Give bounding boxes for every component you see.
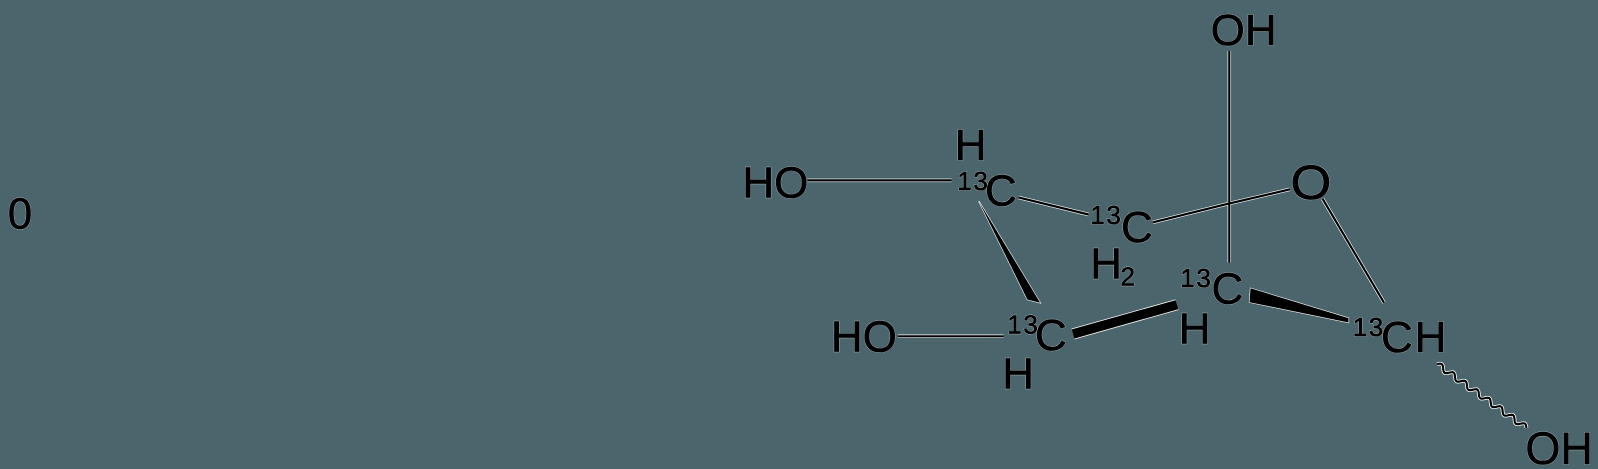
svg-text:CH: CH <box>1381 313 1448 362</box>
svg-text:H: H <box>955 121 987 170</box>
svg-text:13: 13 <box>1180 263 1212 293</box>
svg-text:C: C <box>1212 264 1244 313</box>
svg-text:HO: HO <box>742 158 808 207</box>
svg-text:OH: OH <box>1525 423 1593 469</box>
svg-text:H: H <box>1179 305 1211 354</box>
svg-text:C: C <box>1035 311 1067 360</box>
svg-text:13: 13 <box>1353 312 1385 342</box>
svg-text:C: C <box>985 167 1017 216</box>
svg-text:OH: OH <box>1211 6 1277 55</box>
svg-text:2: 2 <box>1121 262 1135 292</box>
svg-text:H: H <box>1002 350 1034 399</box>
svg-text:O: O <box>1290 157 1331 210</box>
svg-text:13: 13 <box>1090 200 1122 230</box>
svg-text:HO: HO <box>831 313 897 362</box>
svg-text:C: C <box>1121 203 1153 252</box>
svg-text:0: 0 <box>8 190 32 239</box>
svg-text:H: H <box>1090 239 1122 288</box>
